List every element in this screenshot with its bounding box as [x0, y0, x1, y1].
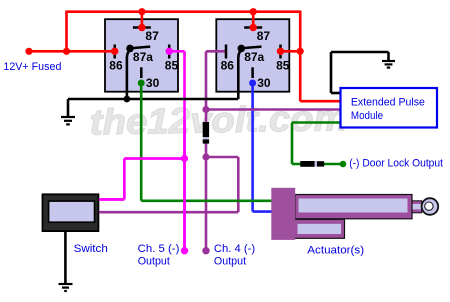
svg-text:Output: Output — [138, 255, 170, 267]
svg-text:12V+ Fused: 12V+ Fused — [3, 61, 61, 73]
svg-text:(-) Door Lock Output: (-) Door Lock Output — [349, 158, 443, 170]
svg-text:Actuator(s): Actuator(s) — [307, 245, 364, 257]
svg-text:30: 30 — [257, 76, 271, 90]
svg-text:87: 87 — [257, 29, 271, 43]
svg-text:86: 86 — [109, 59, 123, 73]
svg-text:Ch. 4 (-): Ch. 4 (-) — [214, 243, 255, 255]
svg-text:Output: Output — [214, 255, 246, 267]
svg-text:86: 86 — [221, 59, 235, 73]
svg-text:Extended Pulse: Extended Pulse — [351, 97, 425, 109]
svg-text:the12volt.com: the12volt.com — [89, 97, 348, 142]
svg-text:87a: 87a — [133, 50, 153, 64]
svg-text:30: 30 — [146, 76, 160, 90]
svg-text:Module: Module — [351, 110, 383, 122]
svg-text:Switch: Switch — [74, 243, 108, 255]
svg-text:85: 85 — [165, 59, 179, 73]
svg-text:87a: 87a — [244, 50, 264, 64]
svg-text:87: 87 — [145, 29, 159, 43]
svg-text:Ch. 5 (-): Ch. 5 (-) — [138, 243, 180, 255]
svg-text:85: 85 — [276, 59, 290, 73]
